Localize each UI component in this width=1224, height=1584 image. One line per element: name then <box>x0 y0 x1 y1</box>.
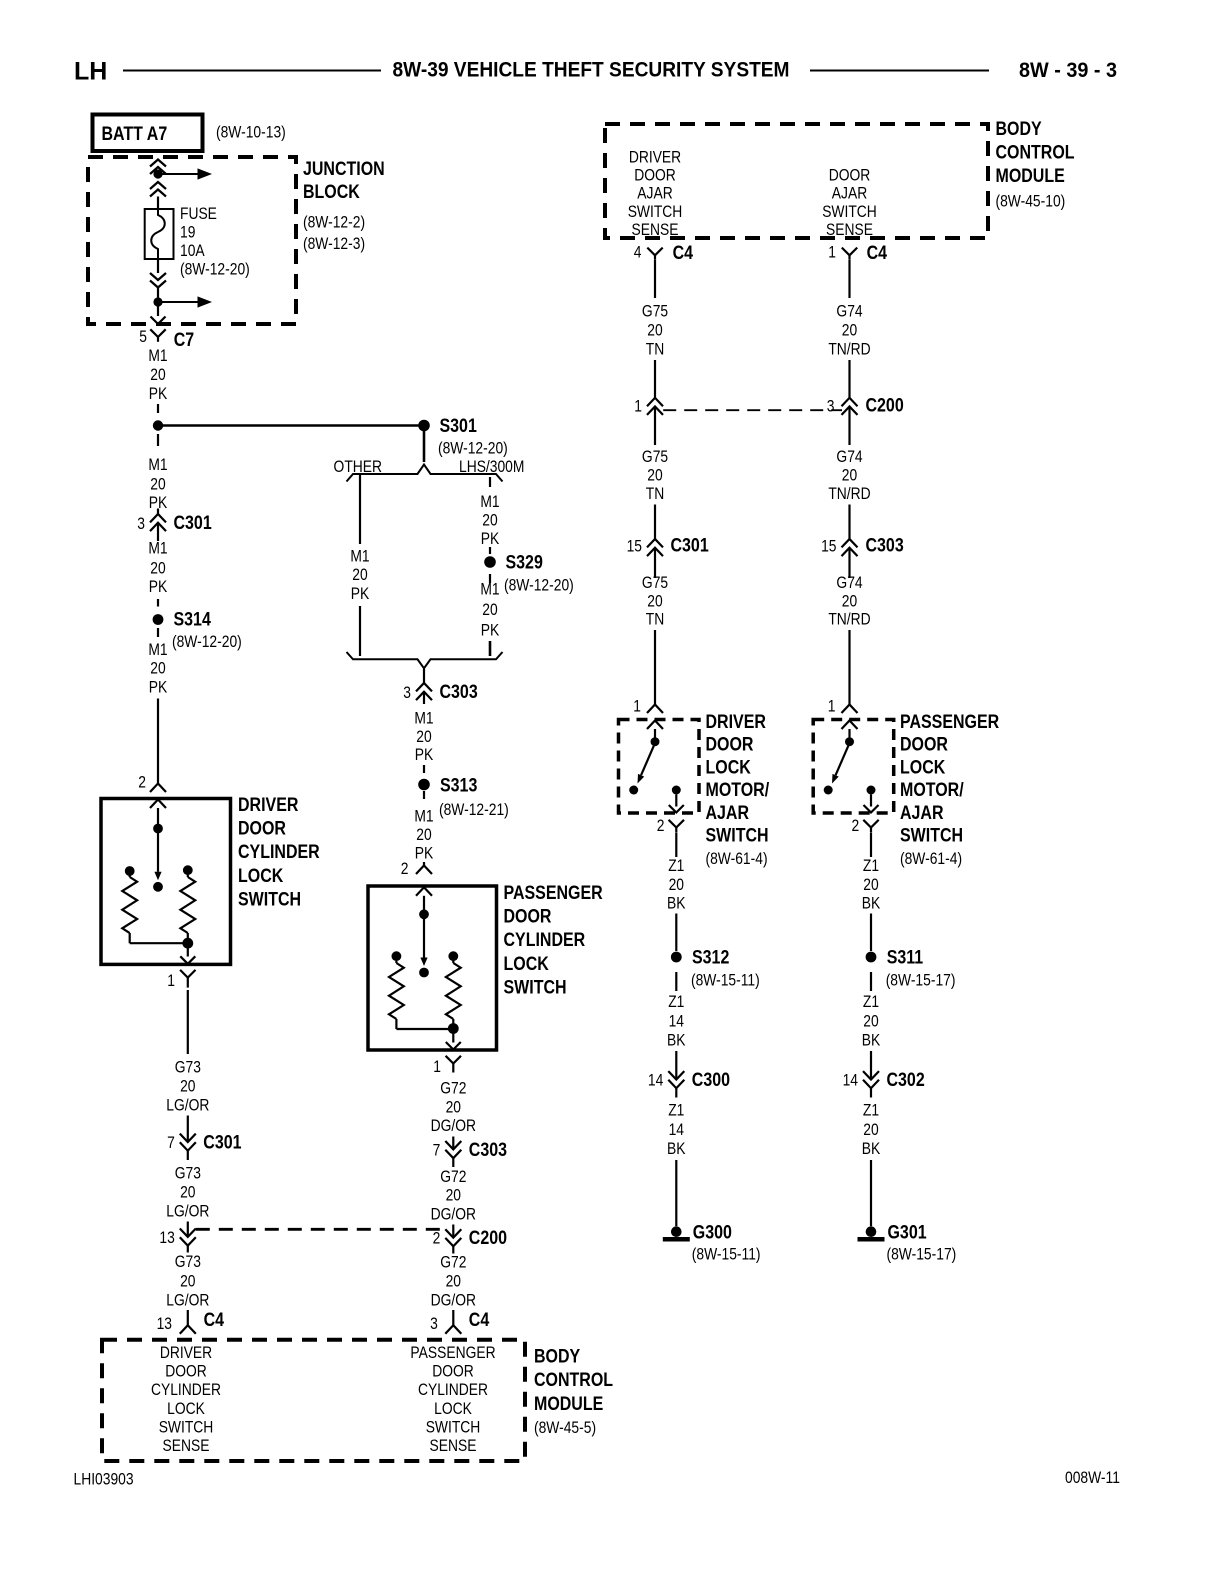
svg-text:G73: G73 <box>175 1164 201 1182</box>
svg-text:LHS/300M: LHS/300M <box>459 458 524 476</box>
svg-text:PASSENGER: PASSENGER <box>504 882 603 904</box>
svg-text:13: 13 <box>159 1229 174 1247</box>
svg-text:(8W-12-20): (8W-12-20) <box>180 260 250 278</box>
svg-text:(8W-61-4): (8W-61-4) <box>900 850 962 868</box>
svg-text:G72: G72 <box>440 1079 466 1097</box>
svg-text:G75: G75 <box>642 574 668 592</box>
svg-text:G74: G74 <box>836 574 863 592</box>
svg-text:BK: BK <box>862 894 880 912</box>
svg-text:M1: M1 <box>414 807 433 825</box>
svg-text:LG/OR: LG/OR <box>166 1202 209 1220</box>
svg-text:M1: M1 <box>414 709 433 727</box>
svg-text:Z1: Z1 <box>863 1101 879 1119</box>
svg-text:3: 3 <box>430 1315 438 1333</box>
svg-text:Z1: Z1 <box>863 993 879 1011</box>
svg-text:AJAR: AJAR <box>637 185 672 203</box>
svg-text:BLOCK: BLOCK <box>303 181 360 203</box>
svg-text:TN: TN <box>646 340 664 358</box>
svg-text:LOCK: LOCK <box>434 1400 472 1418</box>
svg-text:14: 14 <box>669 1012 685 1030</box>
svg-text:14: 14 <box>669 1121 685 1139</box>
svg-text:M1: M1 <box>148 456 167 474</box>
svg-text:(8W-12-20): (8W-12-20) <box>438 439 508 457</box>
svg-text:(8W-61-4): (8W-61-4) <box>706 850 768 868</box>
svg-text:PK: PK <box>481 530 499 548</box>
svg-text:PASSENGER: PASSENGER <box>410 1344 495 1362</box>
svg-text:AJAR: AJAR <box>832 185 867 203</box>
svg-text:20: 20 <box>150 559 165 577</box>
svg-text:20: 20 <box>647 592 662 610</box>
svg-text:20: 20 <box>180 1183 195 1201</box>
svg-text:15: 15 <box>627 537 642 555</box>
svg-text:CYLINDER: CYLINDER <box>238 841 320 863</box>
svg-text:DOOR: DOOR <box>238 817 286 839</box>
svg-text:M1: M1 <box>148 347 167 365</box>
svg-text:SWITCH: SWITCH <box>504 976 567 998</box>
svg-text:M1: M1 <box>148 641 167 659</box>
svg-text:20: 20 <box>863 876 878 894</box>
svg-text:AJAR: AJAR <box>900 801 944 823</box>
svg-text:BODY: BODY <box>534 1345 580 1367</box>
svg-text:20: 20 <box>446 1098 461 1116</box>
svg-text:G75: G75 <box>642 302 668 320</box>
svg-text:DRIVER: DRIVER <box>706 711 767 733</box>
svg-text:SWITCH: SWITCH <box>238 888 301 910</box>
svg-text:20: 20 <box>446 1187 461 1205</box>
svg-text:008W-11: 008W-11 <box>1065 1469 1120 1487</box>
svg-text:SWITCH: SWITCH <box>159 1418 214 1436</box>
svg-text:CONTROL: CONTROL <box>534 1369 613 1391</box>
svg-text:(8W-15-17): (8W-15-17) <box>887 1245 957 1263</box>
svg-text:20: 20 <box>863 1012 878 1030</box>
svg-text:(8W-12-21): (8W-12-21) <box>439 801 509 819</box>
svg-text:G75: G75 <box>642 448 668 466</box>
svg-text:1: 1 <box>828 243 836 261</box>
svg-text:M1: M1 <box>148 539 167 557</box>
svg-text:M1: M1 <box>350 547 369 565</box>
svg-text:SWITCH: SWITCH <box>900 824 963 846</box>
svg-text:BODY: BODY <box>996 117 1042 139</box>
svg-text:DOOR: DOOR <box>504 905 552 927</box>
svg-text:PK: PK <box>415 844 433 862</box>
svg-text:C303: C303 <box>469 1139 507 1161</box>
svg-text:2: 2 <box>401 860 409 878</box>
svg-text:C303: C303 <box>440 681 478 703</box>
svg-text:BK: BK <box>862 1140 880 1158</box>
svg-text:C4: C4 <box>469 1309 490 1331</box>
svg-text:C300: C300 <box>692 1069 730 1091</box>
svg-text:20: 20 <box>180 1272 195 1290</box>
svg-text:DOOR: DOOR <box>706 733 754 755</box>
svg-text:(8W-12-3): (8W-12-3) <box>303 235 365 253</box>
svg-text:20: 20 <box>150 475 165 493</box>
svg-text:20: 20 <box>482 601 497 619</box>
svg-text:Z1: Z1 <box>863 857 879 875</box>
svg-text:Z1: Z1 <box>668 1101 684 1119</box>
svg-text:20: 20 <box>150 659 165 677</box>
svg-text:C301: C301 <box>203 1131 241 1153</box>
svg-text:C303: C303 <box>866 534 904 556</box>
svg-text:PK: PK <box>149 578 167 596</box>
svg-text:G74: G74 <box>836 448 863 466</box>
svg-text:PK: PK <box>149 678 167 696</box>
svg-text:TN/RD: TN/RD <box>828 611 870 629</box>
svg-text:8W - 39 - 3: 8W - 39 - 3 <box>1019 59 1117 82</box>
svg-text:C200: C200 <box>469 1227 507 1249</box>
svg-text:G300: G300 <box>693 1221 732 1243</box>
svg-text:8W-39 VEHICLE THEFT SECURITY S: 8W-39 VEHICLE THEFT SECURITY SYSTEM <box>393 59 790 82</box>
svg-text:7: 7 <box>167 1134 175 1152</box>
svg-text:C302: C302 <box>887 1069 925 1091</box>
svg-text:LHI03903: LHI03903 <box>74 1470 134 1488</box>
svg-text:Z1: Z1 <box>668 993 684 1011</box>
svg-text:20: 20 <box>647 466 662 484</box>
svg-text:14: 14 <box>843 1072 859 1090</box>
svg-text:FUSE: FUSE <box>180 205 217 223</box>
svg-text:LOCK: LOCK <box>504 952 549 974</box>
svg-text:OTHER: OTHER <box>334 458 382 476</box>
svg-text:20: 20 <box>180 1077 195 1095</box>
svg-text:G72: G72 <box>440 1168 466 1186</box>
svg-text:1: 1 <box>167 972 175 990</box>
svg-text:LOCK: LOCK <box>238 864 283 886</box>
svg-text:(8W-10-13): (8W-10-13) <box>216 123 286 141</box>
svg-text:CONTROL: CONTROL <box>996 141 1075 163</box>
svg-text:BK: BK <box>667 894 685 912</box>
svg-text:G301: G301 <box>888 1221 927 1243</box>
svg-text:DRIVER: DRIVER <box>629 148 681 166</box>
svg-text:LOCK: LOCK <box>167 1400 205 1418</box>
svg-text:PK: PK <box>415 746 433 764</box>
svg-text:20: 20 <box>150 366 165 384</box>
svg-text:G72: G72 <box>440 1253 466 1271</box>
svg-text:3: 3 <box>403 684 411 702</box>
svg-text:15: 15 <box>821 537 836 555</box>
svg-text:S312: S312 <box>692 946 729 968</box>
svg-text:LG/OR: LG/OR <box>166 1291 209 1309</box>
svg-text:CYLINDER: CYLINDER <box>418 1381 488 1399</box>
svg-text:SENSE: SENSE <box>826 221 873 239</box>
svg-text:2: 2 <box>851 817 859 835</box>
svg-text:G74: G74 <box>836 302 863 320</box>
svg-text:SWITCH: SWITCH <box>628 203 683 221</box>
svg-text:DRIVER: DRIVER <box>238 794 299 816</box>
svg-text:C7: C7 <box>174 328 195 350</box>
svg-text:DOOR: DOOR <box>432 1363 474 1381</box>
svg-text:C301: C301 <box>174 512 212 534</box>
svg-text:DG/OR: DG/OR <box>431 1291 476 1309</box>
svg-text:CYLINDER: CYLINDER <box>151 1381 221 1399</box>
svg-text:TN: TN <box>646 485 664 503</box>
svg-text:S313: S313 <box>440 774 477 796</box>
svg-text:14: 14 <box>648 1072 664 1090</box>
svg-text:S314: S314 <box>174 608 211 630</box>
svg-text:10A: 10A <box>180 242 205 260</box>
svg-text:1: 1 <box>634 397 642 415</box>
svg-text:LH: LH <box>74 57 107 85</box>
svg-text:DOOR: DOOR <box>900 733 948 755</box>
svg-text:JUNCTION: JUNCTION <box>303 158 385 180</box>
svg-text:G73: G73 <box>175 1253 201 1271</box>
svg-text:S311: S311 <box>887 946 924 968</box>
svg-text:(8W-12-20): (8W-12-20) <box>504 576 574 594</box>
svg-text:20: 20 <box>863 1121 878 1139</box>
svg-text:3: 3 <box>137 515 145 533</box>
svg-text:(8W-12-20): (8W-12-20) <box>172 633 242 651</box>
svg-text:C4: C4 <box>673 242 694 264</box>
svg-text:SWITCH: SWITCH <box>822 203 877 221</box>
svg-text:M1: M1 <box>480 580 499 598</box>
svg-text:TN: TN <box>646 611 664 629</box>
svg-text:SENSE: SENSE <box>430 1437 477 1455</box>
svg-text:CYLINDER: CYLINDER <box>504 929 586 951</box>
svg-text:LOCK: LOCK <box>706 756 751 778</box>
svg-text:BK: BK <box>667 1032 685 1050</box>
svg-text:C301: C301 <box>671 534 709 556</box>
svg-text:20: 20 <box>482 511 497 529</box>
svg-text:MOTOR/: MOTOR/ <box>900 779 964 801</box>
svg-text:M1: M1 <box>480 493 499 511</box>
svg-text:G73: G73 <box>175 1058 201 1076</box>
svg-text:LOCK: LOCK <box>900 756 945 778</box>
svg-text:TN/RD: TN/RD <box>828 485 870 503</box>
svg-text:1: 1 <box>633 697 641 715</box>
svg-text:(8W-15-11): (8W-15-11) <box>691 971 760 989</box>
svg-text:5: 5 <box>139 328 147 346</box>
svg-text:(8W-45-10): (8W-45-10) <box>996 192 1066 210</box>
svg-text:20: 20 <box>647 321 662 339</box>
svg-text:(8W-12-2): (8W-12-2) <box>303 213 365 231</box>
svg-text:DOOR: DOOR <box>829 167 871 185</box>
svg-text:20: 20 <box>842 466 857 484</box>
svg-text:S329: S329 <box>506 551 543 573</box>
svg-text:PK: PK <box>481 621 499 639</box>
svg-text:S301: S301 <box>440 414 477 436</box>
svg-text:4: 4 <box>634 243 642 261</box>
svg-text:BK: BK <box>667 1140 685 1158</box>
svg-text:DG/OR: DG/OR <box>431 1117 476 1135</box>
svg-text:MOTOR/: MOTOR/ <box>706 779 770 801</box>
svg-text:Z1: Z1 <box>668 857 684 875</box>
svg-text:C200: C200 <box>866 394 904 416</box>
svg-text:PASSENGER: PASSENGER <box>900 711 999 733</box>
svg-text:DRIVER: DRIVER <box>160 1344 212 1362</box>
svg-text:DOOR: DOOR <box>165 1363 207 1381</box>
svg-text:19: 19 <box>180 223 195 241</box>
svg-text:20: 20 <box>352 566 367 584</box>
svg-text:MODULE: MODULE <box>534 1392 603 1414</box>
svg-text:20: 20 <box>669 876 684 894</box>
svg-text:2: 2 <box>138 773 146 791</box>
svg-text:1: 1 <box>433 1058 441 1076</box>
svg-text:PK: PK <box>351 585 369 603</box>
svg-text:13: 13 <box>157 1315 172 1333</box>
svg-text:PK: PK <box>149 385 167 403</box>
svg-text:2: 2 <box>433 1230 441 1248</box>
svg-text:SWITCH: SWITCH <box>706 824 769 846</box>
svg-text:AJAR: AJAR <box>706 801 750 823</box>
svg-text:(8W-45-5): (8W-45-5) <box>534 1419 596 1437</box>
svg-text:(8W-15-17): (8W-15-17) <box>886 971 956 989</box>
svg-text:C4: C4 <box>204 1309 225 1331</box>
svg-text:SENSE: SENSE <box>632 221 679 239</box>
svg-text:(8W-15-11): (8W-15-11) <box>692 1245 761 1263</box>
svg-text:3: 3 <box>827 397 835 415</box>
svg-text:2: 2 <box>657 817 665 835</box>
svg-text:SWITCH: SWITCH <box>426 1418 481 1436</box>
svg-text:20: 20 <box>842 592 857 610</box>
svg-text:BK: BK <box>862 1032 880 1050</box>
svg-text:20: 20 <box>416 826 431 844</box>
svg-text:DG/OR: DG/OR <box>431 1205 476 1223</box>
svg-text:LG/OR: LG/OR <box>166 1096 209 1114</box>
svg-text:20: 20 <box>446 1272 461 1290</box>
svg-text:1: 1 <box>828 697 836 715</box>
svg-text:20: 20 <box>842 321 857 339</box>
svg-text:C4: C4 <box>867 242 888 264</box>
svg-text:7: 7 <box>433 1141 441 1159</box>
svg-text:DOOR: DOOR <box>634 167 676 185</box>
svg-text:SENSE: SENSE <box>163 1437 210 1455</box>
svg-text:MODULE: MODULE <box>996 165 1065 187</box>
svg-text:20: 20 <box>416 728 431 746</box>
svg-text:TN/RD: TN/RD <box>828 340 870 358</box>
svg-text:BATT A7: BATT A7 <box>102 123 168 145</box>
